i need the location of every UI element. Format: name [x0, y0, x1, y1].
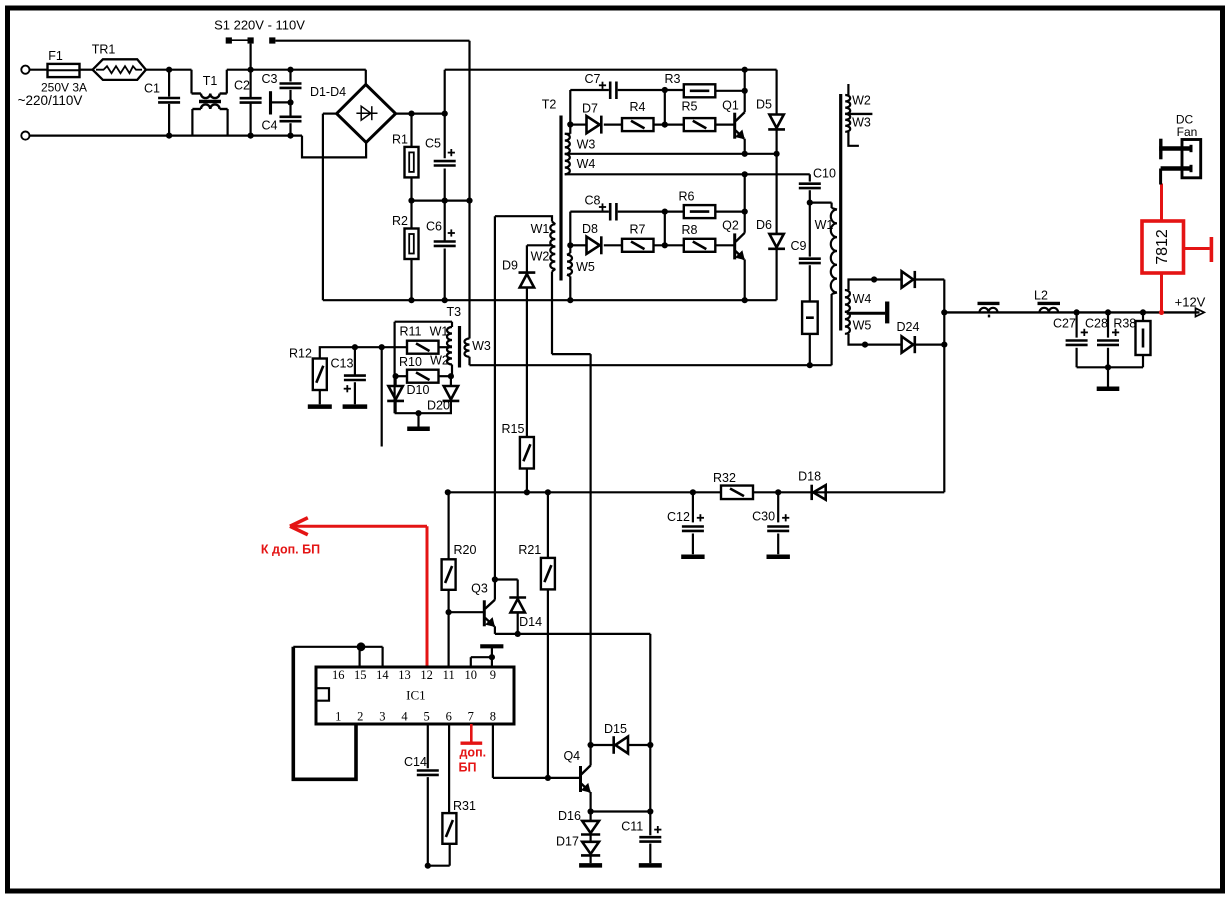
wire W1W2 tap to D9 — [527, 244, 553, 246]
T3 winding W2 — [447, 347, 452, 365]
junction R21 bottom — [545, 775, 551, 781]
plus C12 — [697, 517, 704, 519]
svg-text:R32: R32 — [713, 471, 736, 485]
wire D9 to R15 — [526, 288, 528, 438]
junction C5 top — [442, 111, 448, 117]
wire Q1 emitter — [744, 139, 746, 154]
svg-text:12: 12 — [420, 668, 433, 682]
wire node to R3 — [665, 89, 684, 91]
svg-text:D14: D14 — [519, 615, 542, 629]
wire C14 to R31 — [428, 865, 450, 867]
svg-text:TR1: TR1 — [92, 43, 116, 57]
svg-text:W2: W2 — [531, 249, 550, 263]
svg-text:R8: R8 — [682, 223, 698, 237]
svg-text:W3: W3 — [577, 137, 596, 151]
ground R12 — [308, 404, 332, 409]
transistor Q3 — [483, 600, 486, 626]
svg-text:R15: R15 — [502, 422, 525, 436]
snubber resistor — [802, 302, 818, 334]
ferrite bead — [978, 302, 1000, 305]
junction +12V takeoff — [941, 309, 947, 315]
svg-text:R38: R38 — [1113, 317, 1136, 331]
ground C11 — [639, 863, 662, 868]
wire terminal to F1 — [30, 69, 48, 71]
capacitor C14 — [427, 724, 429, 768]
transformer T1 — [190, 70, 192, 94]
svg-text:W3: W3 — [472, 339, 491, 353]
red wire 7812 right — [1184, 247, 1210, 250]
plus C7 — [599, 84, 606, 86]
svg-text:IC1: IC1 — [406, 688, 426, 703]
capacitor C13 — [354, 347, 356, 375]
plus C13 — [344, 388, 351, 390]
wire Q3 base — [449, 611, 485, 613]
junction C3 on rail — [287, 67, 293, 73]
svg-text:6: 6 — [446, 710, 452, 724]
diode D8 — [570, 244, 586, 246]
plus C6 — [448, 232, 455, 234]
junction D5 bottom — [774, 151, 780, 157]
svg-text:5: 5 — [423, 710, 429, 724]
junction D7 left — [567, 121, 573, 127]
junction C11 top — [647, 808, 653, 814]
junction C30 top — [775, 489, 781, 495]
wire primary feed — [494, 216, 496, 600]
wire C7 left — [570, 89, 609, 91]
plus C8 — [599, 206, 606, 208]
resistor R8 — [684, 239, 716, 252]
wire W3W4 tap row — [565, 153, 777, 155]
wire C8 to R6 — [618, 211, 665, 213]
svg-text:W1: W1 — [531, 222, 550, 236]
svg-text:R10: R10 — [399, 355, 422, 369]
svg-text:C1: C1 — [144, 82, 160, 96]
junction D16 top — [588, 808, 594, 814]
svg-text:C3: C3 — [262, 72, 278, 86]
wire R6 to Q2 collector — [715, 211, 744, 213]
plus C28 — [1112, 331, 1119, 333]
svg-text:R5: R5 — [682, 100, 698, 114]
svg-text:16: 16 — [332, 668, 345, 682]
resistor R12 — [320, 347, 407, 358]
svg-text:9: 9 — [490, 668, 496, 682]
wire Q1 collector — [744, 70, 746, 112]
wire R7 to R8 — [654, 244, 684, 246]
diode D5 — [775, 70, 777, 115]
svg-text:Q1: Q1 — [722, 99, 739, 113]
diode D6 — [769, 234, 783, 248]
red terminal bar — [1210, 237, 1214, 262]
fan pin 2 — [1161, 166, 1191, 170]
junction C5-C6 row — [412, 200, 470, 202]
svg-text:D15: D15 — [604, 722, 627, 736]
switch S1 blade — [229, 39, 251, 41]
svg-text:11: 11 — [443, 668, 455, 682]
transformer T3 core — [458, 326, 461, 368]
wire cross link upper — [664, 90, 666, 125]
IC1 body — [316, 667, 514, 724]
IC1 bottom pin numbers — [335, 710, 496, 724]
svg-text:15: 15 — [354, 668, 367, 682]
wire R8 to Q2 base — [715, 244, 734, 246]
ground D17 — [589, 855, 591, 863]
junction D15 right — [647, 742, 653, 748]
thermistor TR1 — [93, 59, 146, 80]
svg-text:Fan: Fan — [1177, 125, 1198, 139]
red wire 7812 out — [1160, 273, 1163, 312]
svg-text:C9: C9 — [791, 239, 807, 253]
bridge rectifier D1-D4 — [337, 85, 396, 143]
resistor R2 — [410, 201, 412, 229]
svg-text:Q2: Q2 — [722, 219, 739, 233]
junction snubber bottom — [807, 362, 813, 368]
regulator 7812 box — [1142, 221, 1184, 273]
svg-text:C30: C30 — [752, 510, 775, 524]
T2 winding W1 — [495, 216, 552, 221]
svg-text:К доп. БП: К доп. БП — [261, 543, 320, 557]
junction stub node — [379, 344, 385, 350]
junction Q1 collector top — [742, 67, 748, 73]
wire pins 14-15 link — [293, 646, 382, 648]
svg-text:W5: W5 — [853, 319, 872, 333]
T2 winding W5 — [569, 245, 571, 253]
svg-text:C10: C10 — [813, 166, 836, 180]
svg-text:8: 8 — [490, 710, 496, 724]
capacitor C12 — [692, 492, 694, 522]
wire HV rail right — [445, 69, 777, 71]
capacitor C5 — [434, 160, 456, 163]
resistor R1 — [410, 114, 412, 147]
resistor R32 — [721, 486, 753, 500]
wire C8 left — [570, 211, 609, 213]
svg-text:R3: R3 — [665, 72, 681, 86]
wire TR1 to T1 corner — [146, 69, 192, 71]
svg-text:R31: R31 — [453, 799, 476, 813]
ground T3 — [417, 413, 419, 426]
svg-text:D17: D17 — [556, 834, 579, 848]
T3 winding W1 — [451, 322, 453, 327]
svg-text:T3: T3 — [447, 305, 462, 319]
svg-text:C7: C7 — [585, 72, 601, 86]
wire AC rail top — [227, 69, 366, 71]
svg-text:W2: W2 — [430, 354, 449, 368]
svg-text:C14: C14 — [404, 755, 427, 769]
svg-text:T2: T2 — [542, 97, 557, 111]
resistor R4 — [622, 118, 654, 131]
svg-text:R11: R11 — [399, 325, 421, 339]
wire stub down — [381, 347, 383, 446]
svg-text:C4: C4 — [262, 118, 278, 132]
resistor R15 — [520, 437, 534, 469]
resistor R38 — [1142, 312, 1144, 321]
svg-text:3: 3 — [379, 710, 385, 724]
svg-text:C2: C2 — [234, 78, 250, 92]
junction S1feed row — [470, 364, 832, 366]
svg-text:1: 1 — [335, 710, 341, 724]
svg-text:L2: L2 — [1034, 288, 1048, 302]
svg-text:W3: W3 — [852, 115, 871, 129]
pin9 terminal bar — [491, 648, 493, 667]
transistor Q1 — [733, 113, 736, 139]
T3 winding W3 — [465, 339, 470, 357]
transformer T2 core — [559, 116, 562, 281]
diode D20 — [450, 376, 452, 386]
junction filter ground — [1105, 364, 1111, 370]
wire pin10 link — [470, 657, 472, 667]
junction R1 top — [408, 111, 414, 117]
junction C7R3 node — [662, 87, 668, 93]
junction C2 bottom — [248, 133, 254, 139]
svg-text:D6: D6 — [756, 218, 772, 232]
svg-text:D9: D9 — [502, 259, 518, 273]
wire rail to bridge top — [365, 70, 367, 85]
resistor R3 — [684, 84, 716, 97]
wire feedback rail — [448, 491, 945, 493]
wire C10 to W1 — [810, 202, 832, 204]
junction T3 ground node — [415, 410, 421, 416]
capacitor C10 — [809, 174, 811, 181]
junction D14 emitter row — [515, 631, 521, 637]
fuse F1 — [48, 64, 80, 77]
svg-text:4: 4 — [401, 710, 408, 724]
red wire 7812 top — [1160, 184, 1163, 222]
capacitor C6 — [434, 240, 456, 243]
svg-text:C28: C28 — [1085, 317, 1108, 331]
ground C13 — [343, 404, 368, 409]
junction R7-R8 node — [662, 242, 668, 248]
svg-text:T1: T1 — [203, 74, 218, 88]
output transformer core — [839, 94, 842, 331]
svg-text:7: 7 — [468, 710, 474, 724]
capacitor C4 — [280, 116, 302, 119]
diode D10 — [395, 376, 397, 386]
junction R38 — [1140, 309, 1146, 315]
junction R4-R5 node — [662, 122, 668, 128]
svg-text:7812: 7812 — [1154, 229, 1171, 265]
junction C12 top — [690, 489, 696, 495]
wire C7 to R3 — [618, 89, 665, 91]
T2 winding W4 — [565, 154, 570, 174]
wire cross link lower — [664, 212, 666, 246]
svg-text:D10: D10 — [407, 383, 430, 397]
resistor R20 — [448, 492, 450, 559]
wire Q2 emitter — [744, 259, 746, 300]
svg-text:R4: R4 — [630, 100, 646, 114]
capacitor C2 — [240, 97, 262, 100]
fan connector box — [1182, 140, 1201, 178]
wire pin8 to Q4 base — [492, 724, 494, 778]
junction C4 bottom — [287, 133, 293, 139]
ground C12 — [681, 554, 704, 559]
wire bridge left vertex — [323, 112, 337, 114]
plus C5 — [448, 152, 455, 154]
resistor R7 — [622, 239, 654, 252]
feedback winding W2 — [847, 84, 849, 95]
junction C6 bottom — [442, 297, 448, 303]
junction R10 left — [393, 373, 399, 379]
red arrow to aux PSU — [290, 525, 427, 528]
svg-text:C11: C11 — [621, 820, 643, 834]
svg-text:10: 10 — [465, 668, 478, 682]
diode D17 — [589, 835, 591, 842]
junction W5 lead — [862, 342, 868, 348]
svg-text:R2: R2 — [392, 214, 408, 228]
rectifier diode upper — [902, 271, 914, 287]
diode D9 — [519, 271, 536, 274]
center tap — [847, 312, 885, 315]
wire Q3 emitter row — [494, 626, 496, 634]
rectifier diode D24 — [902, 336, 914, 352]
switch S1 contact 1 — [226, 37, 232, 43]
wire D14 bottom — [517, 612, 519, 634]
resistor R21 — [547, 492, 549, 558]
wire R11 right — [439, 346, 453, 348]
wire F1 to TR1 — [80, 69, 93, 71]
wire node to R6 — [665, 211, 684, 213]
junction D8 left — [567, 242, 573, 248]
junction Q1 emitter row — [742, 151, 748, 157]
wire output filter bottom — [1077, 366, 1143, 368]
output winding W5 — [845, 312, 850, 334]
svg-text:C13: C13 — [331, 357, 354, 371]
junction C8R6 node — [662, 209, 668, 215]
wire R4 to R5 — [654, 123, 684, 125]
svg-text:D8: D8 — [582, 222, 598, 236]
capacitor C8 — [609, 203, 612, 221]
feedback tap — [845, 113, 872, 115]
svg-text:C8: C8 — [585, 194, 601, 208]
svg-text:D24: D24 — [897, 320, 920, 334]
junction R10 right — [448, 373, 454, 379]
wire R3 to Q1 collector — [715, 90, 744, 92]
svg-text:W5: W5 — [576, 260, 595, 274]
svg-text:R21: R21 — [518, 543, 541, 557]
wire main negative rail — [323, 299, 777, 301]
wire Q4 collector — [589, 354, 591, 765]
red wire to pin 12 — [426, 526, 429, 667]
capacitor C1 — [168, 70, 170, 97]
junction pin15 node — [357, 642, 366, 651]
junction C10 bottom — [807, 200, 813, 206]
diode D18 — [813, 485, 825, 500]
svg-text:13: 13 — [398, 668, 411, 682]
ground C30 — [767, 554, 790, 559]
svg-text:R12: R12 — [289, 346, 312, 360]
junction Q3 collector node — [492, 576, 498, 582]
wire fan to regulator — [1159, 169, 1162, 185]
wire R5 to Q1 base — [715, 123, 734, 125]
svg-text:C5: C5 — [425, 137, 441, 151]
wire C11 branch — [649, 634, 651, 812]
capacitor C3 — [289, 70, 291, 82]
wire D5 to D6 — [775, 154, 777, 234]
wire C5 column — [444, 70, 446, 159]
junction R6 right — [742, 209, 748, 215]
plus C11 — [654, 829, 661, 831]
svg-text:W2: W2 — [852, 93, 871, 107]
svg-text:F1: F1 — [48, 49, 63, 63]
wire T3 frame bottom — [395, 412, 452, 414]
capacitor C27 — [1075, 312, 1077, 337]
diode D15 — [591, 744, 613, 746]
junction D15 left — [588, 742, 594, 748]
wire W4 bottom row — [565, 173, 810, 175]
junction R21 top — [545, 489, 551, 495]
red pin7 stub — [470, 724, 473, 742]
T3 frame left — [394, 322, 396, 414]
wire Q2 collector — [744, 174, 746, 233]
svg-text:S1 220V - 110V: S1 220V - 110V — [214, 17, 305, 32]
arrow +12V — [1196, 308, 1205, 316]
resistor R5 — [684, 118, 716, 131]
wire rectifier join — [943, 280, 945, 493]
junction C1 bottom — [166, 133, 172, 139]
diode D14 — [509, 596, 526, 599]
junction 7812 to rail — [1159, 310, 1164, 315]
svg-text:D5: D5 — [756, 97, 772, 111]
svg-text:W4: W4 — [853, 292, 872, 306]
wire S1 contact2 down — [250, 44, 252, 98]
capacitor C11 — [649, 812, 651, 836]
switch S1 contact 3 — [269, 37, 275, 43]
transistor Q4 — [579, 766, 582, 792]
junction D24 out — [941, 342, 947, 348]
resistor R11 — [407, 341, 439, 354]
svg-text:W1: W1 — [430, 325, 449, 339]
svg-text:W1: W1 — [815, 218, 834, 232]
wire S1 to right corner — [275, 40, 469, 42]
fan pin 1 — [1159, 146, 1191, 150]
wire S1 feed vertical — [468, 41, 470, 339]
svg-text:R7: R7 — [630, 223, 646, 237]
thick loop wire — [293, 647, 356, 780]
input terminal bottom — [21, 132, 29, 140]
wire D14 top — [495, 578, 518, 580]
transistor Q2 — [733, 233, 736, 259]
chassis cap bar — [269, 91, 272, 114]
svg-text:D7: D7 — [582, 102, 598, 116]
capacitor C9 — [809, 203, 811, 257]
input terminal top — [21, 66, 29, 74]
diode D16 — [589, 812, 591, 821]
fan plug bar — [1159, 139, 1162, 160]
junction Q2 emitter rail — [742, 297, 748, 303]
wire bottom rail input — [30, 135, 303, 137]
junction S1/C2 on rail — [248, 67, 254, 73]
junction C1 top — [166, 67, 172, 73]
resistor R10 — [395, 375, 407, 377]
capacitor C7 — [609, 82, 612, 100]
svg-text:C6: C6 — [426, 220, 442, 234]
junction R2 bottom — [408, 297, 414, 303]
svg-text:2: 2 — [357, 710, 363, 724]
svg-text:W4: W4 — [577, 157, 596, 171]
wire snubber to rail — [809, 334, 811, 365]
capacitor C28 — [1107, 312, 1109, 337]
wire bridge output — [396, 112, 445, 114]
wire T3 frame top — [395, 321, 452, 323]
wire Q4 emitter — [589, 792, 591, 812]
svg-text:R1: R1 — [392, 133, 408, 147]
switch S1 contact 2 — [248, 37, 254, 43]
feedback winding W3 — [845, 114, 850, 132]
diode D7 — [570, 123, 586, 125]
svg-text:14: 14 — [376, 668, 389, 682]
junction rail left end — [445, 489, 451, 495]
junction R15 bottom — [524, 489, 530, 495]
svg-text:R20: R20 — [454, 543, 477, 557]
junction pin9 node — [489, 654, 495, 660]
